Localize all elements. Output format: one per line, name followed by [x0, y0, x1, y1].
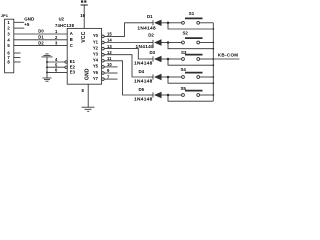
switch S3 pushbutton: [182, 55, 203, 61]
svg-text:GND: GND: [84, 68, 90, 80]
svg-text:Y5: Y5: [93, 64, 99, 69]
svg-text:15: 15: [107, 32, 112, 37]
switch S4 pushbutton: [182, 73, 203, 79]
junction E1 net: [46, 61, 48, 63]
wire row 2 lower branch to bus: [168, 43, 213, 49]
wire junction to switch S4: [168, 76, 182, 78]
wire S1 to bus: [200, 22, 214, 24]
svg-text:GND: GND: [24, 16, 35, 21]
wire row 3 lower branch to bus: [168, 59, 213, 65]
svg-text:D4: D4: [139, 69, 145, 74]
svg-text:10: 10: [107, 62, 112, 67]
svg-text:A: A: [70, 31, 73, 36]
inversion bubble pin 4: [65, 61, 67, 63]
switch S2 pushbutton: [182, 38, 203, 44]
svg-text:Y4: Y4: [93, 58, 99, 63]
svg-text:B: B: [70, 37, 73, 42]
junction bus branch: [212, 48, 214, 50]
svg-text:Y0: Y0: [93, 33, 99, 38]
wire stub JP1 pin7: [14, 57, 21, 59]
svg-text:Y6: Y6: [93, 70, 99, 75]
ground symbol (enable net, upper): [41, 54, 52, 57]
svg-text:E3: E3: [70, 70, 76, 75]
inversion bubble Y5: [102, 66, 105, 69]
svg-text:D1: D1: [147, 14, 153, 19]
svg-text:Y1: Y1: [93, 39, 99, 44]
junction E3 net: [46, 71, 48, 73]
wire KB-COM out: [213, 58, 239, 60]
wire JP1 pin1: [14, 21, 24, 23]
junction bus contact: [212, 42, 214, 44]
wire to E1 pin 4: [47, 61, 65, 63]
wire Y2 to row 3: [104, 49, 147, 59]
junction row 2: [167, 41, 170, 44]
svg-text:S1: S1: [189, 11, 195, 16]
power symbol VCC rail: [81, 0, 88, 5]
wire junction to switch S5: [168, 94, 182, 96]
diode D3 1N4148: [147, 56, 168, 62]
svg-text:S2: S2: [183, 31, 189, 36]
svg-text:D2: D2: [148, 32, 154, 37]
junction bus contact: [212, 76, 214, 78]
wire stub Y7: [104, 78, 118, 80]
junction bus branch: [212, 64, 214, 66]
switch S1 pushbutton: [182, 18, 203, 24]
junction E2 net: [46, 66, 48, 68]
svg-text:1N4148: 1N4148: [134, 78, 153, 84]
wire D2: JP1 pin5 to U2: [14, 45, 67, 47]
svg-text:U2: U2: [59, 17, 65, 22]
wire JP1 pin2: [14, 27, 24, 29]
wire GND pin 8 stub: [87, 84, 89, 107]
svg-text:74HC138: 74HC138: [55, 23, 75, 28]
inversion bubble Y4: [102, 60, 105, 63]
inversion bubble Y7: [102, 78, 105, 81]
ground symbol (IC pin 8): [82, 107, 95, 111]
wire junction to switch S3: [168, 58, 182, 60]
svg-text:D5: D5: [139, 87, 145, 92]
wire stub Y6: [104, 72, 118, 74]
inversion bubble pin 5: [65, 66, 67, 68]
wire row 1 lower branch to bus: [168, 23, 213, 29]
wire Y4 to row 5: [104, 61, 147, 95]
svg-text:14: 14: [107, 38, 112, 43]
wire VCC pin 16 stub: [83, 5, 85, 28]
junction bus branch: [212, 82, 214, 84]
wire stub JP1 pin6: [14, 52, 21, 54]
svg-text:D1: D1: [38, 35, 44, 40]
junction bus contact: [212, 58, 214, 60]
svg-text:1N4148: 1N4148: [134, 60, 153, 66]
wire junction to switch S1: [168, 22, 182, 24]
svg-text:S3: S3: [181, 50, 187, 55]
svg-text:S5: S5: [181, 86, 187, 91]
wire row 4 lower branch to bus: [168, 77, 213, 83]
svg-text:16: 16: [80, 13, 85, 18]
svg-text:JP1: JP1: [1, 13, 9, 18]
wire S2 to bus: [200, 42, 214, 44]
wire S4 to bus: [200, 76, 214, 78]
wire D0: JP1 pin3 to U2: [14, 33, 67, 35]
inversion bubble Y3: [102, 53, 105, 56]
connector JP1: [1, 13, 14, 73]
svg-text:1N4148: 1N4148: [134, 96, 153, 102]
svg-text:KB-COM: KB-COM: [218, 52, 239, 57]
wire S5 to bus: [200, 94, 214, 96]
junction bus contact: [212, 94, 214, 96]
svg-text:D3: D3: [150, 50, 156, 55]
svg-text:S4: S4: [181, 67, 187, 72]
wire to E2 pin 5: [47, 66, 65, 68]
junction row 1: [167, 22, 170, 25]
svg-text:Y7: Y7: [93, 76, 99, 81]
diode D2 1N4148: [147, 39, 168, 45]
svg-text:1N4148: 1N4148: [136, 44, 155, 50]
wire to E3 pin 6: [47, 71, 67, 73]
wire stub JP1 pin8: [14, 61, 21, 63]
svg-text:+5: +5: [24, 22, 30, 27]
wire Y1 to row 2: [104, 42, 147, 44]
inversion bubble Y2: [102, 47, 105, 50]
wire Y3 to row 4: [104, 55, 147, 77]
svg-text:1N4148: 1N4148: [137, 26, 156, 32]
svg-text:13: 13: [107, 44, 112, 49]
wire KB-COM vertical bus: [212, 23, 214, 101]
svg-text:VCC: VCC: [81, 31, 87, 42]
wire ground net vertical: [46, 57, 48, 78]
IC U2 74HC138 decoder body: [67, 28, 101, 84]
wire Y0 to row 1: [104, 23, 147, 37]
svg-text:C: C: [70, 43, 73, 48]
wire row 5 lower branch to bus: [168, 95, 213, 101]
junction row 4: [167, 76, 170, 79]
wire junction to switch S2: [168, 42, 182, 44]
svg-text:11: 11: [107, 56, 112, 61]
wire S3 to bus: [200, 58, 214, 60]
inversion bubble Y1: [102, 41, 105, 44]
switch S5 pushbutton: [182, 91, 203, 97]
junction bus branch: [212, 28, 214, 30]
diode D5 1N4148: [147, 92, 168, 98]
svg-text:Y3: Y3: [93, 52, 99, 57]
inversion bubble Y6: [102, 72, 105, 75]
diode D1 1N4148: [147, 20, 168, 26]
junction row 3: [167, 58, 170, 61]
ground symbol (enable net, lower): [43, 78, 52, 81]
svg-text:Y2: Y2: [93, 45, 99, 50]
wire D1: JP1 pin4 to U2: [14, 39, 67, 41]
inversion bubble Y0: [102, 35, 105, 38]
svg-text:12: 12: [107, 50, 112, 55]
diode D4 1N4148: [147, 74, 168, 80]
wire stub Y5: [104, 66, 118, 68]
junction row 5: [167, 94, 170, 97]
svg-text:D2: D2: [38, 40, 44, 45]
svg-text:D0: D0: [38, 29, 44, 34]
